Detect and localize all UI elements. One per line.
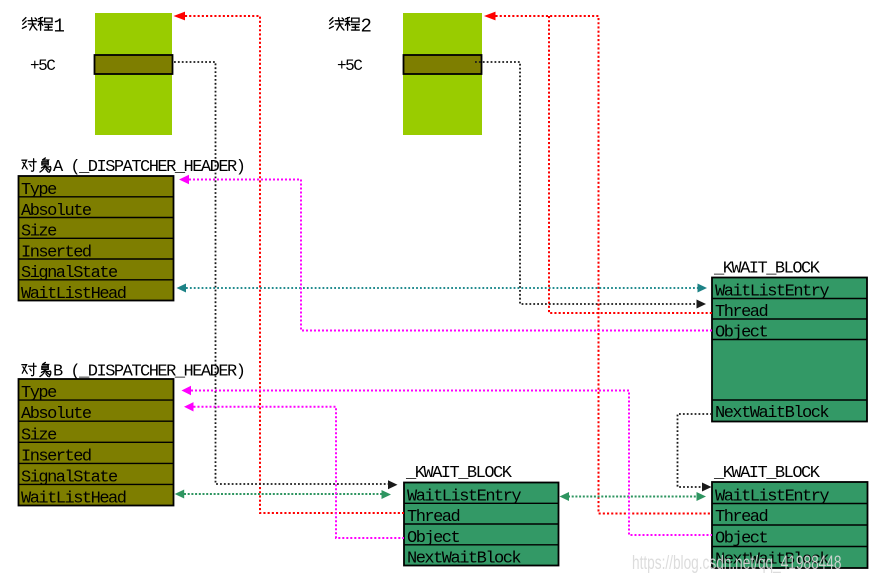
svg-text:Inserted: Inserted: [21, 447, 91, 466]
svg-text:+5C: +5C: [337, 57, 362, 75]
svg-text:_KWAIT_BLOCK: _KWAIT_BLOCK: [405, 464, 513, 483]
svg-text:Size: Size: [21, 223, 57, 242]
svg-text:Object: Object: [715, 324, 768, 343]
svg-text:WaitListEntry: WaitListEntry: [715, 283, 829, 302]
svg-text:1: 1: [54, 16, 65, 38]
svg-text:Size: Size: [21, 426, 57, 445]
svg-text:WaitListEntry: WaitListEntry: [407, 487, 521, 506]
svg-text:WaitListEntry: WaitListEntry: [715, 488, 829, 507]
svg-text:Thread: Thread: [407, 508, 460, 527]
svg-text:https://blog.csdn.net/qq_41988: https://blog.csdn.net/qq_41988448: [632, 552, 841, 574]
svg-text:NextWaitBlock: NextWaitBlock: [407, 550, 521, 569]
svg-text:+5C: +5C: [30, 57, 55, 75]
svg-text:Thread: Thread: [715, 508, 768, 527]
svg-text:WaitListHead: WaitListHead: [21, 490, 126, 509]
svg-text:SignalState: SignalState: [21, 264, 118, 283]
svg-text:_KWAIT_BLOCK: _KWAIT_BLOCK: [713, 464, 821, 483]
svg-text:NextWaitBlock: NextWaitBlock: [715, 404, 829, 423]
svg-text:Object: Object: [407, 529, 460, 548]
svg-text:SignalState: SignalState: [21, 468, 118, 487]
svg-text:Object: Object: [715, 530, 768, 549]
svg-text:Thread: Thread: [715, 303, 768, 322]
svg-text:WaitListHead: WaitListHead: [21, 285, 126, 304]
svg-text:Absolute: Absolute: [21, 405, 92, 424]
svg-text:Absolute: Absolute: [21, 202, 92, 221]
svg-text:2: 2: [361, 16, 372, 38]
svg-text:Type: Type: [21, 181, 57, 200]
svg-text:Inserted: Inserted: [21, 243, 91, 262]
svg-text:_KWAIT_BLOCK: _KWAIT_BLOCK: [713, 260, 821, 279]
svg-text:Type: Type: [21, 384, 57, 403]
